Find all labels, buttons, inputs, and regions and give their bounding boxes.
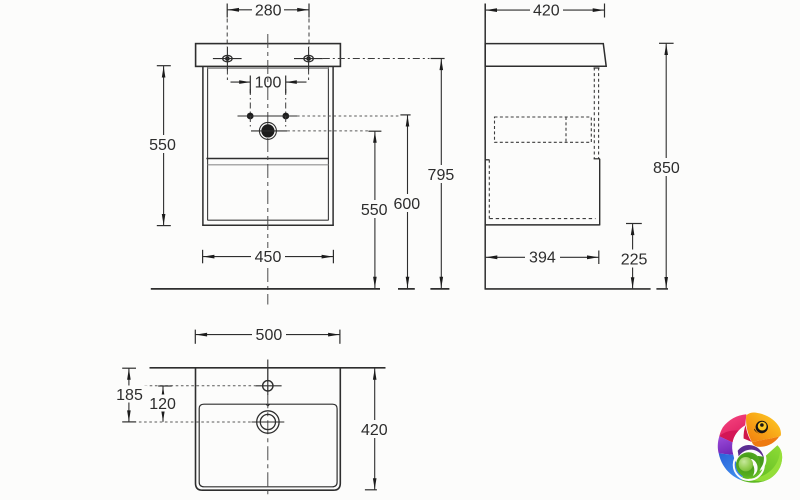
hidden bottom dashed line xyxy=(490,218,596,220)
DIMENSION 225 xyxy=(617,224,652,289)
logo white gap ring xyxy=(734,450,764,480)
front step at drawer bottom xyxy=(485,159,489,161)
right tap hole xyxy=(294,47,323,71)
cabinet top inner gray line xyxy=(208,67,329,69)
LOGO chameleon xyxy=(718,413,782,483)
DIMENSION 280 xyxy=(227,1,309,80)
logo eye lower crescent xyxy=(754,429,764,434)
DIMENSION 795 xyxy=(424,59,458,289)
svg-text:450: 450 xyxy=(255,249,282,266)
logo purple petal xyxy=(718,436,734,455)
logo magenta lower edge xyxy=(719,430,738,442)
cabinet inner right wall xyxy=(327,67,329,220)
logo deep red neck wedge xyxy=(744,425,752,442)
DIMENSION 394 xyxy=(486,249,599,267)
svg-text:280: 280 xyxy=(255,2,282,19)
basin inner outline xyxy=(199,404,337,487)
DIMENSION 450 xyxy=(203,248,334,266)
plan vertical centerline xyxy=(267,368,269,497)
svg-text:550: 550 xyxy=(149,137,176,154)
svg-text:100: 100 xyxy=(255,75,282,92)
DIMENSION 500 xyxy=(195,326,340,344)
PLAN VIEW xyxy=(129,360,386,498)
cabinet right solid edge lower xyxy=(599,159,601,226)
dash-dot vertical right 100 xyxy=(285,89,287,128)
ground line front view xyxy=(151,288,380,290)
logo white swoosh in spiral xyxy=(749,459,758,476)
faucet hole plan xyxy=(255,369,281,395)
svg-text:850: 850 xyxy=(653,160,680,177)
dash-dot vertical left 100 xyxy=(249,89,251,128)
ground tick under 600 xyxy=(398,288,415,290)
DIMENSION 550 right xyxy=(358,131,392,288)
fixing dot right xyxy=(282,113,289,120)
ground tick under 850 xyxy=(656,288,668,290)
cabinet inner bottom line xyxy=(208,219,329,221)
front centerline xyxy=(267,34,269,305)
logo orange jaw dark xyxy=(752,437,779,447)
cabinet outer left wall xyxy=(202,66,204,225)
cabinet bottom solid xyxy=(485,224,600,226)
cabinet hidden right edges dashed xyxy=(593,68,595,159)
ground tick under 795 xyxy=(430,288,449,290)
logo dark green hook from curl xyxy=(758,456,764,469)
plan back wall line xyxy=(150,367,386,369)
fixing dot left xyxy=(247,113,254,120)
dotted line from drain to 550 dim xyxy=(287,130,368,132)
dotted line faucet level xyxy=(145,385,256,387)
logo green crescent highlight xyxy=(747,449,782,482)
DIMENSION 850 xyxy=(649,43,684,288)
dotted line from dots to 600 dim xyxy=(297,115,400,117)
DIMENSION 120 xyxy=(146,386,181,422)
svg-text:394: 394 xyxy=(529,250,556,267)
svg-text:420: 420 xyxy=(361,422,388,439)
DIMENSION 100 xyxy=(231,75,307,94)
cabinet inner left wall xyxy=(207,67,209,220)
cabinet outer right wall xyxy=(332,66,334,225)
logo green ball xyxy=(739,457,753,471)
svg-text:600: 600 xyxy=(393,196,420,213)
DIMENSION 420 side top xyxy=(485,2,604,20)
hidden drawer box dashed rectangle xyxy=(495,117,592,142)
hidden drawer divider dashed xyxy=(565,117,567,142)
svg-text:795: 795 xyxy=(428,167,455,184)
logo eye yellow xyxy=(758,422,767,431)
logo blue petal xyxy=(719,453,745,480)
DIMENSION 420 plan xyxy=(357,368,392,489)
drain plan double circle xyxy=(252,411,285,433)
SIDE VIEW xyxy=(485,4,669,290)
FRONT VIEW xyxy=(196,34,430,305)
DIMENSION 550 left xyxy=(146,66,181,226)
svg-text:550: 550 xyxy=(361,202,388,219)
fixing dots horizontal line xyxy=(238,115,298,117)
DIMENSION 185 xyxy=(112,368,147,422)
logo tail purple curl xyxy=(738,445,764,459)
drawer divider gray line xyxy=(208,164,329,166)
svg-text:420: 420 xyxy=(533,3,560,20)
basin outer outline xyxy=(196,368,341,490)
svg-text:185: 185 xyxy=(116,387,143,404)
hidden edge caps xyxy=(594,67,600,69)
side main vertical / wall line xyxy=(484,4,486,290)
drain hole circle xyxy=(251,122,287,139)
overflow tick at basin top center xyxy=(266,404,271,407)
svg-text:120: 120 xyxy=(149,396,176,413)
logo orange head xyxy=(746,413,781,442)
left tap hole xyxy=(213,47,242,71)
DIMENSION 600 xyxy=(390,115,424,288)
svg-text:225: 225 xyxy=(621,251,648,268)
plan centerline tick above xyxy=(267,360,269,369)
logo eye black ring xyxy=(756,421,768,433)
hidden front lower edge dashed xyxy=(488,160,490,219)
counter side profile xyxy=(485,44,606,67)
drawer divider dark line xyxy=(206,158,329,160)
logo pink petal xyxy=(719,414,746,442)
svg-text:500: 500 xyxy=(256,327,283,344)
dotted line drain level xyxy=(129,421,252,423)
ground line side view xyxy=(485,288,651,290)
cabinet outer bottom xyxy=(202,224,334,226)
logo green outer crescent xyxy=(741,445,782,482)
logo green spiral disc xyxy=(736,452,761,477)
dash-dot from right hole to 795 dim xyxy=(323,58,430,60)
counter/washbasin front outline xyxy=(196,44,341,67)
logo eye pupil xyxy=(760,423,764,427)
